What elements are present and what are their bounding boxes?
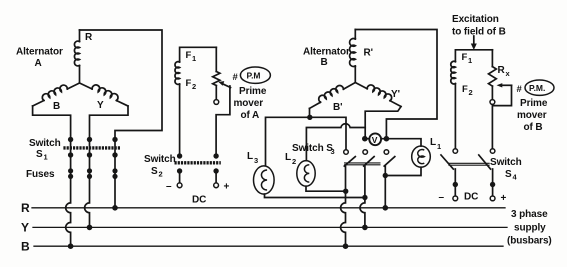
wire: L1 top to voltmeter right node (386, 139, 421, 146)
wire: L3 bottom to switch S3 pole 2 lower side (265, 194, 365, 197)
winding R of alternator A (74, 30, 93, 83)
svg-text:F: F (462, 84, 468, 95)
node: L3 bottom junction (362, 195, 367, 200)
wire: S3 pole 2 to busbar Y (hop over R) (360, 166, 365, 228)
alternator A label (16, 47, 63, 70)
svg-text:Switch: Switch (29, 138, 61, 149)
node: A phase R on busbar R (112, 205, 118, 211)
winding Y&#39; of alternator B (355, 83, 401, 107)
wire: S3 pole 1 to busbar B (hops over R and Y) (341, 166, 346, 246)
wire: L1 bottom to switch S3 pole 3 lower side (385, 167, 421, 175)
switch S1 (29, 137, 120, 162)
node: L1 bottom junction (383, 173, 388, 178)
node: S3 pole1 on busbar B (343, 243, 349, 249)
prime mover of A label (233, 67, 271, 121)
svg-text:Fuses: Fuses (26, 169, 55, 180)
svg-text:Prime: Prime (239, 86, 267, 97)
wire: B&#39; phase of B down to node (309, 108, 311, 117)
node: L2 bottom junction (343, 189, 348, 194)
svg-text:B': B' (333, 102, 342, 113)
svg-text:Excitation: Excitation (452, 14, 499, 25)
node: S3 pole2 on busbar Y (362, 225, 368, 231)
busbars right label (507, 209, 552, 247)
svg-text:F: F (186, 50, 192, 61)
node: A phase B on busbar B (68, 243, 74, 249)
busbar Y (21, 221, 507, 235)
field winding F1 F2 of A (175, 47, 216, 156)
svg-text:mover: mover (234, 98, 264, 109)
lamp L3 (247, 151, 274, 194)
svg-text:–: – (166, 181, 172, 192)
svg-text:P.M: P.M (247, 71, 261, 81)
svg-text:2: 2 (469, 88, 473, 97)
wire: L2 top to switch S3 pole 2 upper side (hop over pole 1) (306, 124, 365, 161)
svg-text:R: R (498, 65, 506, 76)
svg-text:Y: Y (97, 100, 104, 111)
svg-text:3: 3 (331, 147, 335, 156)
svg-text:2: 2 (292, 157, 296, 166)
svg-text:of A: of A (241, 110, 260, 121)
DC supply terminals of S4 (439, 169, 507, 204)
svg-text:B: B (321, 57, 328, 68)
svg-text:#: # (517, 84, 523, 95)
wire: Y&#39; phase of B to voltmeter node (365, 107, 401, 139)
svg-text:L: L (430, 137, 436, 148)
node: A phase Y on busbar Y (87, 225, 93, 231)
svg-text:#: # (233, 72, 239, 83)
svg-text:R: R (85, 32, 93, 43)
rheostat Rx of B (489, 50, 512, 149)
svg-text:+: + (501, 193, 507, 204)
svg-text:1: 1 (437, 142, 441, 151)
svg-text:DC: DC (464, 192, 478, 203)
svg-text:4: 4 (513, 173, 518, 182)
svg-text:L: L (285, 152, 291, 163)
svg-text:to field of B: to field of B (452, 27, 506, 38)
wire: L2 bottom to switch S3 pole 1 lower side (306, 186, 346, 191)
svg-text:1: 1 (468, 56, 472, 65)
svg-text:L: L (247, 151, 253, 162)
node: B&#39; junction (307, 115, 312, 120)
wire: S3 pole 3 to busbar R (384, 166, 386, 208)
svg-text:Switch: Switch (490, 157, 522, 168)
svg-text:x: x (506, 69, 511, 78)
svg-text:Alternator: Alternator (16, 47, 63, 58)
svg-text:S: S (36, 149, 43, 160)
wire: R&#39; phase loop of B down to voltmeter node (355, 30, 437, 139)
svg-text:S: S (151, 166, 158, 177)
svg-text:DC: DC (192, 195, 206, 206)
svg-text:1: 1 (192, 54, 196, 63)
svg-text:F: F (186, 78, 192, 89)
excitation label and arrow (452, 14, 506, 50)
svg-text:S: S (505, 169, 512, 180)
rheostat (field regulator) of A (213, 47, 231, 156)
svg-text:2: 2 (159, 170, 163, 179)
switch S4 (441, 149, 522, 182)
svg-text:Y': Y' (391, 89, 400, 100)
fuses (26, 168, 118, 180)
alternator B label (303, 47, 350, 69)
svg-text:3 phase: 3 phase (511, 209, 548, 220)
svg-text:Switch S: Switch S (292, 143, 333, 154)
wire: L3 top lead / B&#39; node to switch S3 pole 1 (266, 117, 347, 166)
svg-text:+: + (224, 182, 230, 193)
svg-text:1: 1 (44, 153, 48, 162)
lamp L2 (285, 152, 315, 186)
wire: R phase of A loop to switch S1 (80, 30, 163, 140)
node: S3 pole3 on busbar R (383, 205, 389, 211)
svg-text:F: F (462, 52, 468, 63)
svg-text:–: – (439, 192, 445, 203)
svg-text:Y: Y (21, 221, 29, 235)
prime mover of B label (517, 80, 555, 133)
voltmeter V (362, 133, 389, 145)
svg-text:2: 2 (192, 82, 196, 91)
switch S3 (292, 143, 395, 166)
svg-text:mover: mover (517, 110, 547, 121)
switch S2 (144, 153, 221, 178)
svg-text:B: B (53, 101, 60, 112)
svg-text:V: V (372, 135, 378, 145)
svg-text:P.M.: P.M. (529, 83, 545, 93)
wire: B phase of A to switch S1 and busbar B (with crossover hops) (33, 106, 71, 246)
svg-text:R': R' (364, 48, 373, 59)
wire: R phase of A down to busbar R (114, 140, 116, 208)
svg-text:3: 3 (254, 156, 258, 165)
svg-text:B: B (21, 240, 30, 254)
svg-text:Prime: Prime (520, 98, 548, 109)
svg-text:(busbars): (busbars) (507, 236, 552, 247)
svg-text:Switch: Switch (144, 154, 176, 165)
winding R&#39; of alternator B (350, 30, 373, 83)
winding B&#39; of alternator B (310, 83, 356, 114)
busbar B (21, 240, 503, 254)
svg-text:of B: of B (524, 122, 543, 133)
winding B of alternator A (33, 83, 80, 112)
winding Y of alternator A (80, 83, 129, 111)
lamp L1 (412, 137, 441, 167)
wire: Y phase of A to switch S1 and busbar Y (with crossover hop) (85, 106, 128, 227)
svg-text:Alternator: Alternator (303, 47, 350, 58)
busbar R (21, 201, 505, 215)
field winding F1 F2 of B (451, 50, 493, 149)
DC supply terminals of S2 (166, 171, 230, 206)
svg-text:R: R (21, 201, 30, 215)
svg-text:A: A (35, 58, 42, 69)
svg-text:supply: supply (514, 223, 546, 234)
